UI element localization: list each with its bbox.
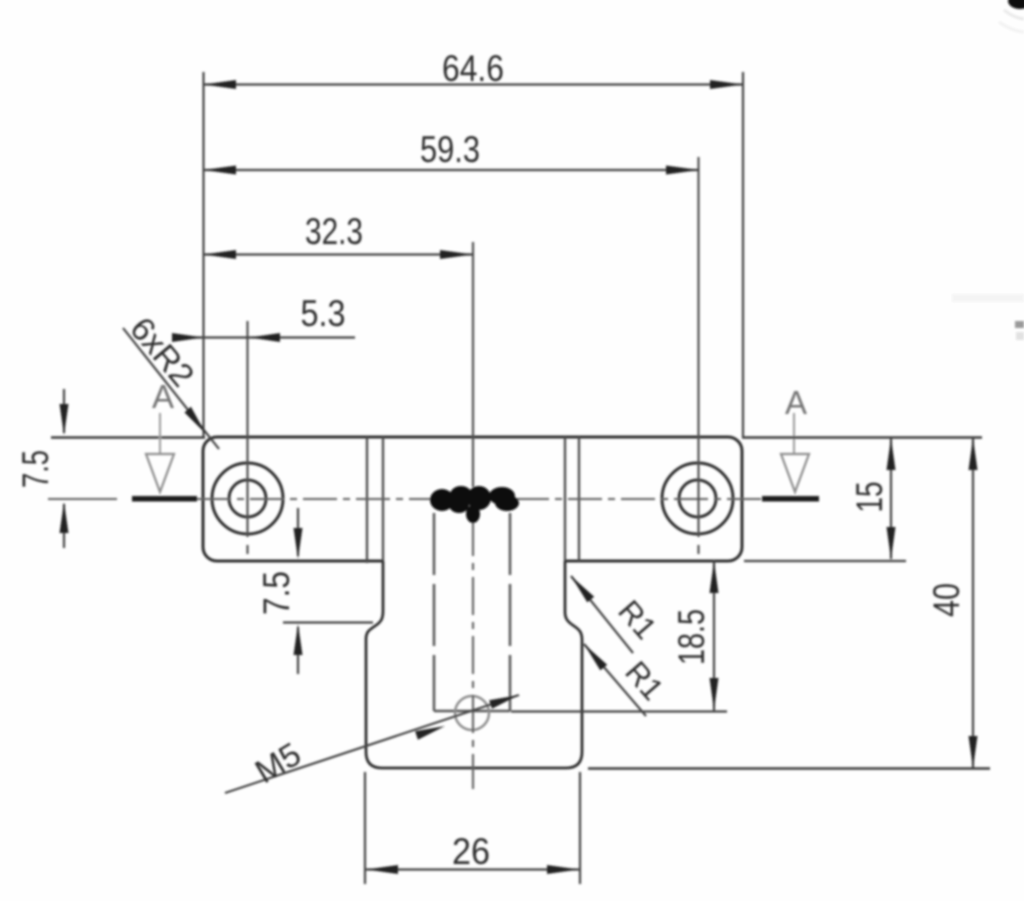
left hole inner circle — [229, 480, 266, 517]
dimension 26 extension line left — [364, 772, 366, 884]
svg-text:59.3: 59.3 — [420, 129, 480, 170]
dimension 59.3 arrow left — [204, 166, 237, 175]
dimension 7.5 left: upper shaft and arrow — [63, 389, 65, 433]
dimension 64.6 arrow right — [710, 80, 743, 89]
dimension 5.3 arrow right (outside) — [249, 333, 280, 342]
part outline: central stem with side jogs and rounded bottom — [366, 561, 582, 768]
dimension 26 arrow right — [547, 865, 579, 874]
M5 threaded hole circle — [455, 696, 489, 730]
section cut thick bar right — [762, 496, 819, 502]
dimension 18.5 arrow top — [710, 561, 719, 593]
bend line right outer — [578, 437, 580, 561]
left hole outer circle — [212, 463, 283, 534]
extension line part bottom right (for 40) — [588, 767, 990, 769]
slot right edge (dashed) — [509, 513, 512, 711]
horizontal centerline through holes — [48, 498, 117, 500]
dimension 32.3 arrow left — [204, 250, 237, 259]
section cut thick bar left — [132, 496, 197, 502]
right hole inner circle — [679, 480, 716, 517]
dimension 59.3 arrow right — [666, 166, 699, 175]
svg-text:7.5: 7.5 — [15, 450, 56, 488]
svg-text:32.3: 32.3 — [305, 211, 363, 252]
slot vertical centerline upper / 32.3 extension — [472, 242, 474, 487]
section marker A right: open triangle — [781, 454, 809, 492]
leader 6xR2 line — [123, 328, 219, 449]
dimension 7.5 left: lower shaft and arrow — [63, 504, 65, 548]
dimension 26 arrow left — [366, 865, 398, 874]
leader M5 line — [225, 695, 519, 793]
corner blob top right — [1008, 0, 1024, 9]
slot left edge (dashed) — [433, 513, 436, 711]
leader 6xR2 arrowhead — [185, 407, 207, 434]
dimension 32.3 line — [204, 253, 474, 255]
slot vertical centerline lower (dash-dot) — [472, 518, 474, 789]
section marker A right: stem — [793, 413, 795, 453]
svg-text:64.6: 64.6 — [442, 48, 504, 89]
section marker A left: open triangle — [146, 454, 174, 492]
dimension 18.5 line — [713, 560, 715, 711]
svg-text:15: 15 — [849, 482, 890, 513]
dimension 15 arrow bottom — [887, 527, 896, 559]
right hole vertical centerline / 59.3 extension — [697, 157, 699, 537]
extension line slot bottom (for 18.5) — [511, 710, 727, 712]
svg-text:18.5: 18.5 — [671, 609, 712, 665]
svg-text:40: 40 — [926, 583, 967, 617]
bend line left inner — [382, 437, 384, 561]
dimension 26 extension line right — [579, 772, 581, 884]
left hole vertical centerline — [246, 321, 248, 537]
faint artifact band right edge — [952, 294, 1024, 302]
dimension 7.5 step: lower shaft and arrow — [297, 627, 299, 674]
leader R1 upper arrowhead — [571, 576, 594, 602]
extension line bar bottom right (for 15) — [744, 560, 906, 562]
svg-text:A: A — [785, 384, 807, 421]
dimension 64.6 line — [204, 83, 744, 85]
dimension 64.6 arrow left — [204, 80, 237, 89]
svg-text:5.3: 5.3 — [301, 293, 346, 334]
extension line top edge right (for 15 and 40) — [742, 436, 982, 438]
right hole outer circle — [662, 463, 733, 534]
leader M5 arrowhead at slot corner — [489, 695, 519, 709]
dimension 18.5 arrow bottom — [710, 678, 719, 710]
black blob marks at slot top — [430, 486, 519, 523]
dimension 59.3 line — [204, 169, 700, 171]
dimension 7.5 step: extension line — [283, 621, 373, 623]
part outline: top bar rounded rectangle — [203, 437, 742, 561]
dimension 15 line — [890, 438, 892, 559]
dimension 15 arrow top — [887, 438, 896, 470]
dimension 5.3 line — [172, 336, 355, 338]
dimension 40 arrow top — [969, 438, 978, 470]
svg-text:R1: R1 — [611, 593, 663, 645]
leader R1 lower line — [584, 644, 646, 716]
dimension 64.6 extension line right — [742, 72, 744, 437]
dimension 64.6 extension line left — [202, 72, 204, 437]
dimension 32.3 arrow right — [440, 250, 473, 259]
dimension 40 arrow bottom — [969, 736, 978, 768]
dimension 5.3 arrow left (outside) — [172, 333, 204, 342]
svg-text:R1: R1 — [618, 654, 670, 706]
leader R1 lower arrowhead — [584, 644, 607, 670]
leader M5 arrowhead on circle — [415, 726, 445, 740]
bend line right inner — [564, 437, 566, 561]
dimension 7.5 left: top extension line — [51, 436, 205, 438]
leader R1 upper line — [571, 576, 633, 653]
svg-text:7.5: 7.5 — [256, 571, 297, 615]
slot bottom edge — [434, 710, 510, 713]
svg-text:26: 26 — [452, 831, 490, 872]
dimension 40 line — [972, 438, 974, 768]
faint mark right edge — [1015, 321, 1024, 328]
bend line left outer — [366, 437, 368, 563]
dimension 7.5 step: upper shaft and arrow — [297, 508, 299, 556]
dimension 26 line — [365, 868, 580, 870]
section marker A left: stem — [159, 413, 161, 453]
